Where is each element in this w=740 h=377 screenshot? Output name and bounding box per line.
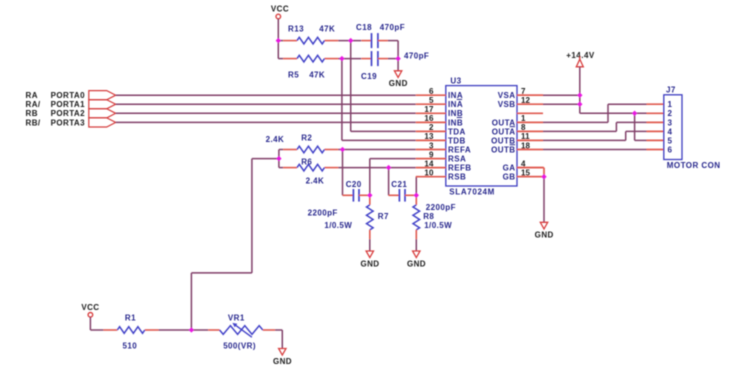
svg-text:5: 5 bbox=[668, 136, 673, 145]
svg-text:OUTB: OUTB bbox=[491, 145, 515, 154]
svg-text:5: 5 bbox=[429, 96, 434, 105]
svg-text:R8: R8 bbox=[423, 212, 434, 221]
svg-text:GND: GND bbox=[407, 259, 426, 268]
svg-text:500(VR): 500(VR) bbox=[223, 341, 256, 350]
svg-text:1: 1 bbox=[668, 100, 673, 109]
svg-text:2.4K: 2.4K bbox=[306, 176, 325, 185]
svg-text:PORTA1: PORTA1 bbox=[51, 100, 86, 109]
svg-text:INA: INA bbox=[448, 100, 463, 109]
svg-text:2200pF: 2200pF bbox=[308, 209, 338, 218]
svg-text:INB: INB bbox=[448, 109, 463, 118]
svg-text:SLA7024M: SLA7024M bbox=[449, 188, 495, 197]
svg-text:C20: C20 bbox=[346, 180, 362, 189]
svg-text:2.4K: 2.4K bbox=[266, 135, 285, 144]
svg-text:3: 3 bbox=[429, 141, 434, 150]
svg-text:C18: C18 bbox=[356, 23, 372, 32]
svg-text:47K: 47K bbox=[319, 24, 335, 33]
svg-text:VCC: VCC bbox=[271, 5, 289, 14]
svg-text:13: 13 bbox=[424, 132, 434, 141]
svg-text:REFB: REFB bbox=[448, 164, 471, 173]
svg-text:RB: RB bbox=[26, 109, 38, 118]
svg-text:18: 18 bbox=[521, 141, 531, 150]
svg-text:RSB: RSB bbox=[448, 173, 466, 182]
svg-text:RB/: RB/ bbox=[26, 118, 41, 127]
svg-text:GND: GND bbox=[273, 357, 292, 366]
svg-text:GND: GND bbox=[360, 259, 379, 268]
svg-text:2: 2 bbox=[429, 123, 434, 132]
svg-text:VCC: VCC bbox=[81, 303, 99, 312]
svg-text:OUTA: OUTA bbox=[492, 127, 516, 136]
svg-text:VR1: VR1 bbox=[228, 314, 245, 323]
svg-text:47K: 47K bbox=[309, 70, 325, 79]
svg-text:6: 6 bbox=[668, 145, 673, 154]
svg-text:PORTA3: PORTA3 bbox=[51, 118, 86, 127]
svg-text:470pF: 470pF bbox=[404, 51, 429, 60]
svg-text:8: 8 bbox=[521, 123, 526, 132]
svg-text:RA/: RA/ bbox=[26, 100, 41, 109]
svg-text:R7: R7 bbox=[378, 212, 389, 221]
svg-text:MOTOR CON: MOTOR CON bbox=[667, 161, 721, 170]
svg-text:U3: U3 bbox=[450, 77, 461, 86]
svg-text:GND: GND bbox=[535, 231, 554, 240]
svg-text:RSA: RSA bbox=[448, 155, 466, 164]
svg-text:INB: INB bbox=[448, 118, 463, 127]
svg-text:PORTA2: PORTA2 bbox=[51, 109, 86, 118]
svg-text:1: 1 bbox=[521, 114, 526, 123]
svg-text:12: 12 bbox=[521, 96, 531, 105]
svg-text:1/0.5W: 1/0.5W bbox=[324, 221, 352, 230]
svg-text:2: 2 bbox=[668, 109, 673, 118]
svg-text:OUTA: OUTA bbox=[492, 118, 516, 127]
svg-text:R6: R6 bbox=[301, 157, 312, 166]
svg-text:VSB: VSB bbox=[498, 100, 516, 109]
svg-text:16: 16 bbox=[424, 114, 434, 123]
svg-text:R2: R2 bbox=[301, 134, 312, 143]
svg-text:VSA: VSA bbox=[498, 91, 516, 100]
svg-text:4: 4 bbox=[668, 127, 673, 136]
svg-text:GA: GA bbox=[503, 164, 516, 173]
svg-text:INA: INA bbox=[448, 91, 463, 100]
svg-text:PORTA0: PORTA0 bbox=[51, 91, 86, 100]
svg-text:6: 6 bbox=[429, 87, 434, 96]
svg-text:GND: GND bbox=[389, 79, 408, 88]
svg-text:GB: GB bbox=[503, 173, 516, 182]
svg-text:+14.4V: +14.4V bbox=[566, 51, 595, 60]
svg-text:C21: C21 bbox=[391, 180, 407, 189]
svg-text:J7: J7 bbox=[666, 86, 676, 95]
svg-text:10: 10 bbox=[424, 169, 434, 178]
svg-text:2200pF: 2200pF bbox=[426, 203, 456, 212]
svg-text:1/0.5W: 1/0.5W bbox=[424, 221, 452, 230]
svg-text:3: 3 bbox=[668, 118, 673, 127]
svg-text:14: 14 bbox=[424, 159, 434, 168]
svg-text:TDB: TDB bbox=[448, 136, 466, 145]
svg-text:9: 9 bbox=[429, 150, 434, 159]
svg-text:REFA: REFA bbox=[448, 145, 471, 154]
svg-text:R13: R13 bbox=[288, 24, 304, 33]
svg-text:TDA: TDA bbox=[448, 127, 466, 136]
svg-text:470pF: 470pF bbox=[380, 23, 405, 32]
svg-text:RA: RA bbox=[26, 91, 38, 100]
svg-text:R5: R5 bbox=[288, 70, 299, 79]
svg-text:17: 17 bbox=[424, 105, 434, 114]
svg-text:R1: R1 bbox=[125, 314, 136, 323]
svg-text:11: 11 bbox=[521, 132, 530, 141]
svg-text:C19: C19 bbox=[361, 72, 377, 81]
svg-text:510: 510 bbox=[123, 341, 138, 350]
svg-text:OUTB: OUTB bbox=[491, 136, 515, 145]
